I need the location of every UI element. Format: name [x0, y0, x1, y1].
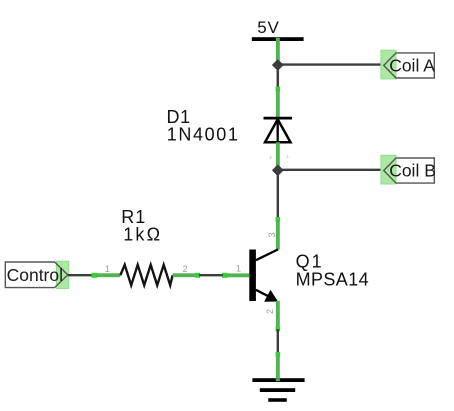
resistor R1 pin 2 lead — [173, 273, 199, 277]
svg-text:2: 2 — [265, 309, 275, 314]
wire J2 to Coil B — [278, 169, 384, 171]
wire-end knot at Q1 base — [222, 273, 227, 278]
wire-end knot at R1 pin 2 — [195, 273, 200, 278]
wire J1 to Coil A — [278, 63, 384, 65]
wire Control to R1 — [68, 274, 94, 276]
node junction J1 — [272, 59, 284, 71]
(lead overlaps rail bar) — [276, 38, 280, 66]
Q1 base lead — [227, 273, 250, 277]
net label Coil A pin highlight — [381, 50, 396, 79]
wire J2 to Q1 collector — [277, 170, 279, 220]
svg-text:2: 2 — [183, 264, 188, 274]
transistor Q1 collector lead — [276, 220, 280, 250]
svg-text:5V: 5V — [257, 18, 279, 37]
resistor R1 zigzag symbol — [120, 265, 172, 286]
svg-text:Coil A: Coil A — [389, 56, 435, 76]
net label Control flag — [5, 262, 68, 288]
svg-text:MPSA14: MPSA14 — [296, 269, 369, 289]
svg-text:1: 1 — [105, 264, 110, 274]
wire-end knot at D1 cathode — [276, 87, 281, 92]
wire R1 to Q1 base — [199, 274, 223, 276]
wire-end knot at Q1 collector — [276, 217, 281, 222]
wire-end knot at R1 pin 1 — [92, 273, 98, 278]
svg-text:Control: Control — [7, 265, 63, 285]
wire-end knot at ground pin — [276, 352, 281, 357]
ground pin lead — [276, 354, 280, 380]
svg-text:1N4001: 1N4001 — [167, 125, 240, 145]
wire-end knot at Q1 emitter — [276, 327, 281, 332]
diode D1 cathode lead — [276, 89, 280, 117]
svg-text:1kΩ: 1kΩ — [123, 225, 162, 245]
ground pin lead tip over bar — [276, 378, 280, 381]
net label Coil B flag — [384, 158, 435, 183]
ground symbol — [252, 378, 304, 402]
svg-text:Q1: Q1 — [296, 251, 324, 271]
wire Q1 emitter to ground — [277, 329, 279, 354]
diode D1 symbol — [264, 118, 293, 142]
transistor Q1 symbol — [249, 249, 278, 301]
power +5V rail symbol — [252, 37, 304, 41]
diode D1 anode lead — [276, 142, 280, 170]
svg-text:Coil B: Coil B — [389, 161, 436, 181]
wire J1 to D1 cathode — [277, 65, 280, 90]
node junction J2 — [272, 164, 284, 176]
resistor R1 pin 1 lead — [97, 273, 121, 277]
svg-text:3: 3 — [267, 232, 277, 237]
net label Control pin highlight — [56, 261, 68, 288]
svg-text:1: 1 — [236, 264, 241, 274]
net label Coil A flag — [384, 53, 435, 78]
transistor Q1 emitter lead — [276, 301, 280, 330]
net label Coil B pin highlight — [381, 155, 396, 184]
